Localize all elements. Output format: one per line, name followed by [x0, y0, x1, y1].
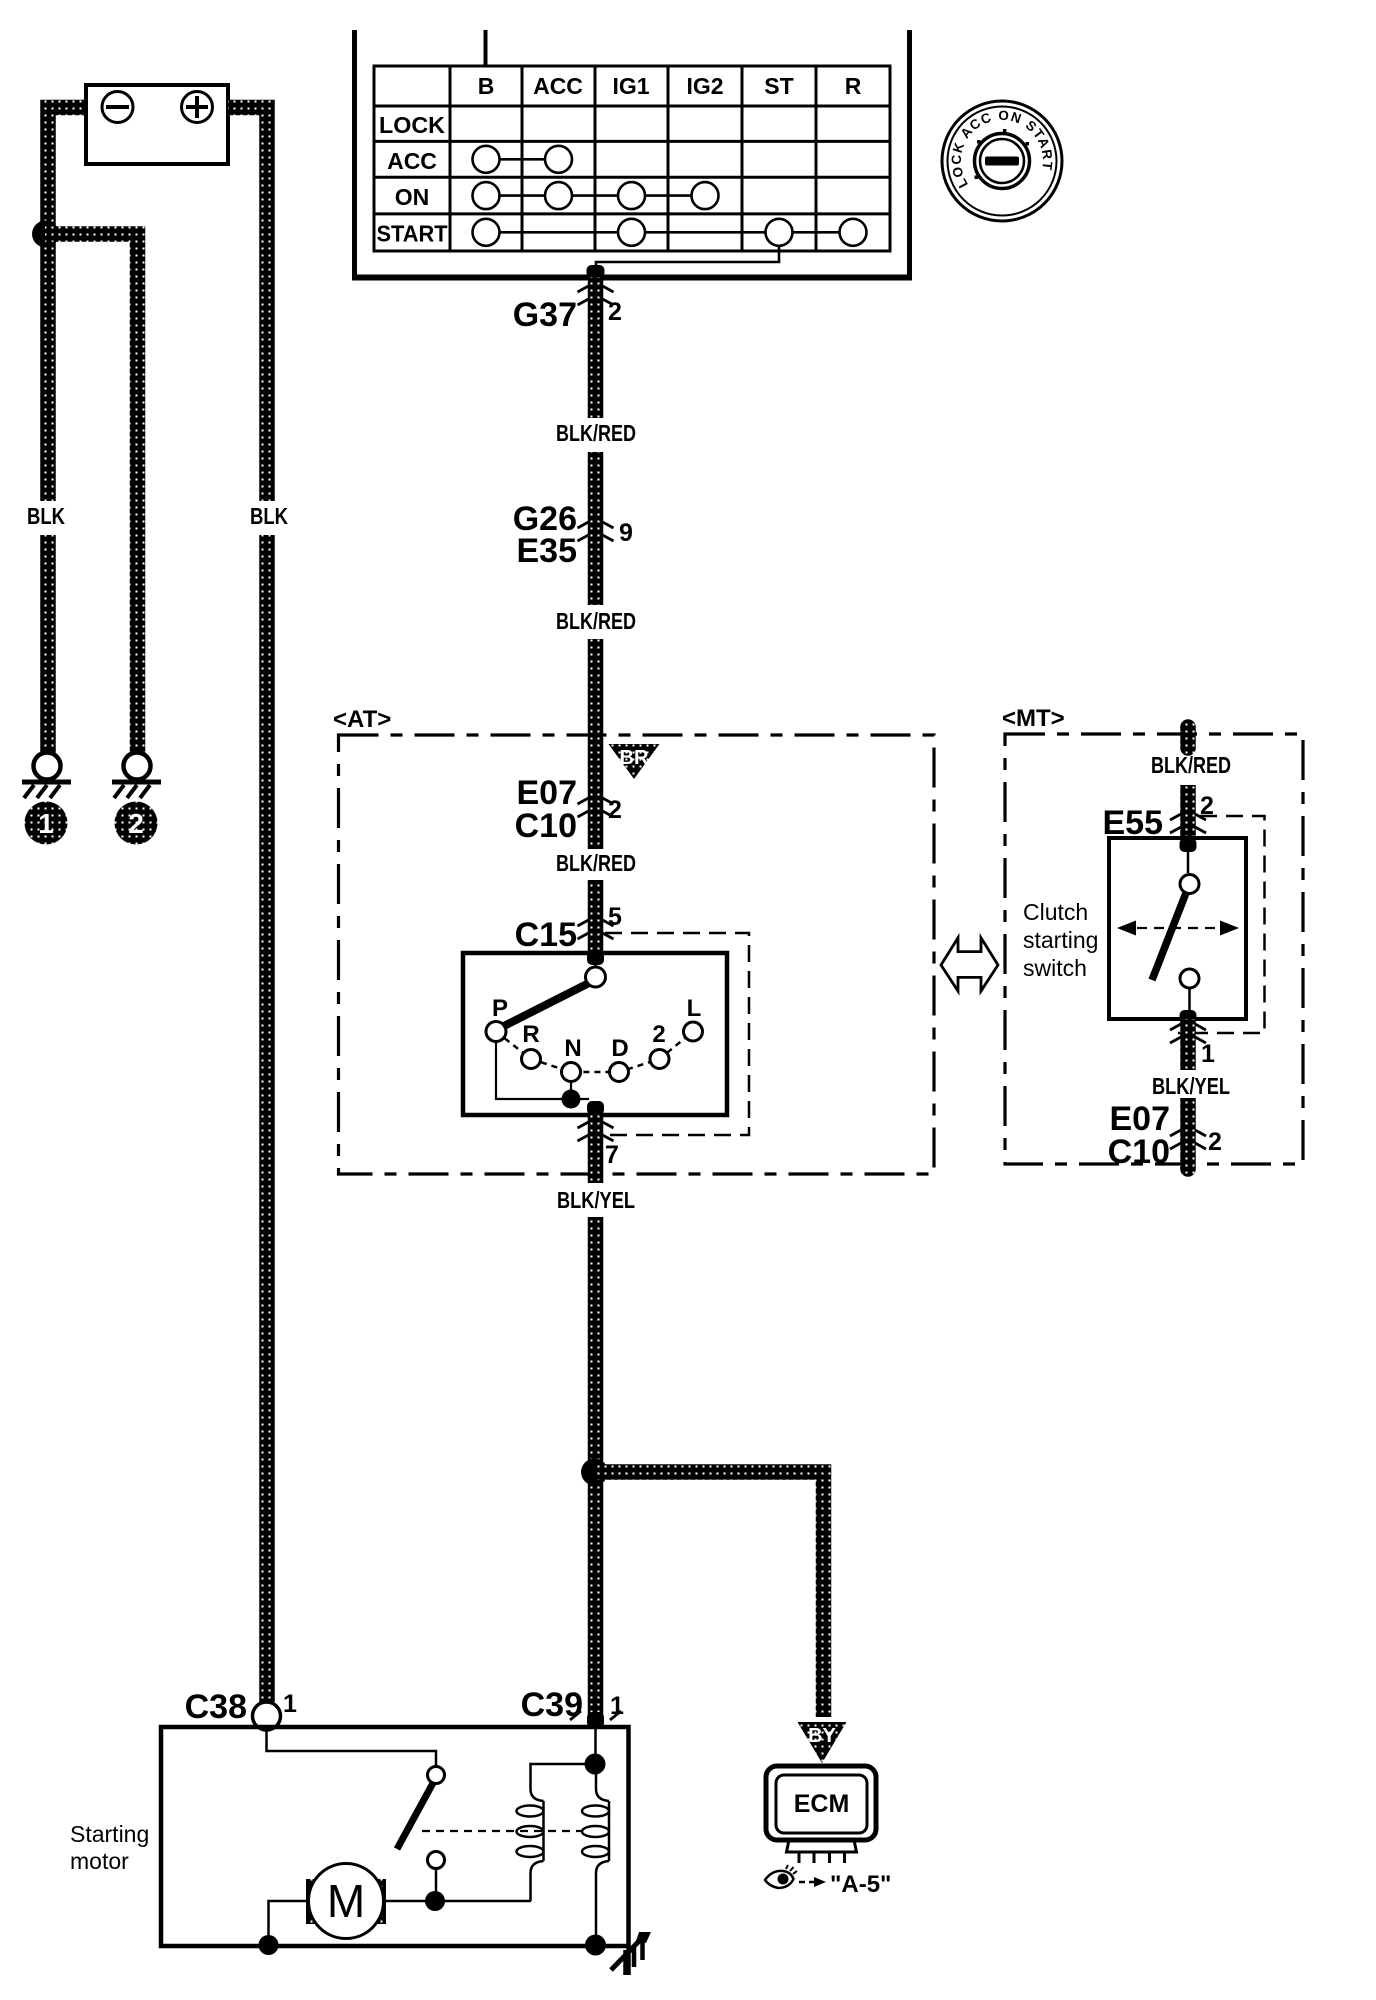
- svg-text:M: M: [327, 1875, 365, 1927]
- svg-text:<MT>: <MT>: [1002, 705, 1065, 732]
- svg-text:L: L: [687, 995, 702, 1022]
- svg-text:2: 2: [128, 808, 144, 839]
- node ground junction left: [259, 1935, 279, 1955]
- battery B1: [86, 85, 228, 164]
- svg-text:1: 1: [610, 1692, 624, 1720]
- svg-text:BR: BR: [620, 747, 649, 769]
- C15 connector dashed boundary: [596, 933, 749, 1135]
- wire segment into AT box: [588, 639, 604, 849]
- svg-text:7: 7: [605, 1141, 619, 1169]
- connector E55 break: [1170, 814, 1206, 833]
- svg-text:P: P: [492, 995, 508, 1022]
- svg-text:BLK/YEL: BLK/YEL: [557, 1187, 635, 1213]
- transaxle range sensor box: [463, 953, 727, 1115]
- wire sensor output: [587, 1101, 604, 1115]
- svg-text:C10: C10: [515, 807, 577, 845]
- wire P to output: [496, 1042, 589, 1100]
- node sensor output junction: [562, 1090, 581, 1109]
- starting motor box: [161, 1727, 629, 1946]
- svg-text:G37: G37: [513, 296, 577, 334]
- selector arm: [503, 984, 588, 1027]
- svg-text:starting: starting: [1023, 927, 1098, 953]
- connector G37 break: [578, 286, 614, 305]
- sensor contact arc dashed: [496, 1032, 693, 1073]
- wire battery negative to ground 1: [48, 108, 86, 502]
- svg-text:BLK/RED: BLK/RED: [556, 420, 636, 446]
- E55 connector dashed boundary: [1178, 816, 1265, 1033]
- eye icon see reference: [765, 1865, 797, 1888]
- wire C39 into coils: [594, 1728, 597, 1758]
- svg-text:switch: switch: [1023, 955, 1087, 981]
- wire down to branch junction: [588, 1217, 604, 1714]
- node branch to ECM: [581, 1459, 608, 1486]
- clutch starting switch box: [1109, 838, 1246, 1019]
- svg-text:C15: C15: [515, 916, 577, 954]
- svg-text:START: START: [377, 221, 448, 247]
- connector E07/C10 break MT: [1170, 1130, 1206, 1149]
- svg-text:ON: ON: [395, 184, 430, 210]
- connector C15 break: [578, 920, 614, 939]
- ground 1: [22, 753, 71, 799]
- wire battery positive down to C38: [228, 108, 267, 502]
- motor M1: [306, 1879, 327, 1924]
- AT MT equivalence arrow: [941, 938, 998, 991]
- svg-text:motor: motor: [70, 1848, 129, 1874]
- wire BLK/RED into clutch switch: [1180, 727, 1196, 748]
- svg-text:BLK: BLK: [250, 503, 288, 529]
- key cylinder icon: [942, 101, 1062, 221]
- dashed arrow to A-5: [799, 1881, 816, 1884]
- connector E07/C10 break: [578, 798, 614, 817]
- svg-text:1: 1: [1201, 1040, 1215, 1068]
- wire branch to ground 2: [45, 234, 138, 753]
- table contact links: [486, 159, 853, 277]
- svg-text:B: B: [478, 73, 495, 99]
- connector pin 7 break: [578, 1122, 614, 1141]
- svg-text:C10: C10: [1108, 1133, 1170, 1171]
- chassis ground at motor: [611, 1935, 645, 1970]
- wire branch to ECM: [594, 1472, 824, 1717]
- svg-text:BLK/YEL: BLK/YEL: [1152, 1073, 1230, 1099]
- connector pin 1 break: [1170, 1024, 1206, 1043]
- svg-text:1: 1: [38, 808, 54, 839]
- wire BLK/YEL out of clutch switch: [1180, 1010, 1197, 1024]
- ignition switch IGSW outer box: [352, 30, 912, 278]
- AT dashed box: [339, 735, 935, 1174]
- svg-text:N: N: [564, 1035, 581, 1062]
- wire segment: [588, 452, 604, 605]
- svg-text:IG2: IG2: [686, 73, 723, 99]
- svg-text:Clutch: Clutch: [1023, 899, 1088, 925]
- svg-text:2: 2: [608, 298, 622, 326]
- svg-text:R: R: [845, 73, 862, 99]
- table contact circles: [473, 146, 867, 246]
- svg-text:ACC: ACC: [387, 148, 437, 174]
- svg-text:BLK: BLK: [27, 503, 65, 529]
- svg-text:Starting: Starting: [70, 1821, 149, 1847]
- svg-text:BLK/RED: BLK/RED: [556, 608, 636, 634]
- ECM U1: [766, 1766, 876, 1863]
- wire color triangle BR: [609, 744, 660, 779]
- wire segment to sensor: [588, 880, 604, 953]
- svg-text:BLK/RED: BLK/RED: [1151, 752, 1231, 778]
- svg-text:2: 2: [608, 796, 622, 824]
- svg-text:2: 2: [652, 1021, 665, 1048]
- wire main ST feed from ignition switch: [587, 265, 605, 278]
- wire color triangle BY: [798, 1722, 847, 1763]
- node motor junction: [425, 1891, 445, 1911]
- contact circles P R N D 2 L: [486, 967, 703, 1082]
- svg-text:ACC: ACC: [533, 73, 583, 99]
- clutch switch contacts: [1187, 852, 1190, 873]
- svg-text:ST: ST: [764, 73, 793, 99]
- node coil top junction: [585, 1754, 606, 1775]
- svg-text:IG1: IG1: [612, 73, 649, 99]
- svg-text:1: 1: [283, 1690, 297, 1718]
- svg-text:2: 2: [1208, 1128, 1222, 1156]
- node ground junction right: [585, 1935, 606, 1956]
- svg-text:C38: C38: [185, 1688, 247, 1726]
- MT dashed box: [1005, 734, 1303, 1164]
- svg-text:LOCK: LOCK: [379, 112, 445, 138]
- svg-text:9: 9: [619, 519, 633, 547]
- svg-text:BLK/RED: BLK/RED: [556, 850, 636, 876]
- ground 2: [112, 753, 161, 799]
- svg-text:<AT>: <AT>: [333, 706, 391, 733]
- wire motor to coil return: [386, 1900, 531, 1903]
- wire motor to ground: [269, 1901, 307, 1944]
- node branch junction: [32, 221, 59, 248]
- svg-text:5: 5: [608, 903, 622, 931]
- ignition switch contact table: [374, 66, 890, 251]
- coil pull-in winding: [531, 1764, 596, 1901]
- svg-text:D: D: [611, 1035, 628, 1062]
- coil hold-in winding: [596, 1774, 609, 1943]
- wire C38 to relay switch: [267, 1730, 437, 1766]
- svg-text:"A-5": "A-5": [830, 1871, 891, 1898]
- svg-text:E35: E35: [517, 532, 578, 570]
- svg-text:BY: BY: [808, 1725, 836, 1747]
- svg-text:ECM: ECM: [794, 1790, 850, 1818]
- relay switch contacts: [428, 1767, 445, 1784]
- connector G26/E35 break: [578, 522, 614, 541]
- svg-text:R: R: [522, 1021, 539, 1048]
